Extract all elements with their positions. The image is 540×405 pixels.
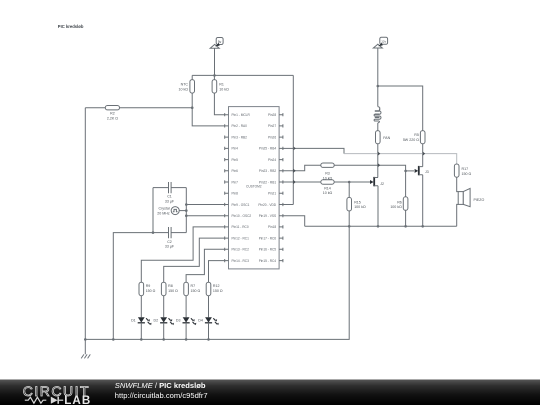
resistor R12 [206, 282, 223, 296]
wire Pin23 RB2 [283, 165, 321, 171]
resistor R14 [321, 180, 334, 195]
wire R6 bottom [405, 210, 407, 226]
svg-text:Pin11 - RC0: Pin11 - RC0 [232, 225, 249, 229]
svg-text:Pin16 - RC5: Pin16 - RC5 [259, 248, 277, 252]
wire R8 to LED [163, 296, 165, 318]
pin 10 left stub [225, 214, 252, 218]
resistor R15 [347, 197, 366, 211]
pin 17 right stub [259, 236, 283, 240]
pin 15 right stub [259, 259, 283, 263]
wire crystal right side [185, 188, 187, 233]
svg-text:Pin17 - RC6: Pin17 - RC6 [259, 236, 277, 240]
svg-text:Pin9 - OSC1: Pin9 - OSC1 [232, 203, 250, 207]
svg-text:R1: R1 [219, 83, 224, 87]
pin 9 left stub [225, 203, 250, 207]
svg-text:Pin3 - RB2: Pin3 - RB2 [232, 135, 248, 139]
wire RC1 to LED column 2 [164, 238, 225, 282]
pin 23 right stub [259, 169, 283, 173]
node LED ground junction [207, 338, 210, 341]
wire crystal bottom right segment [171, 232, 186, 234]
svg-text:Pin26: Pin26 [268, 135, 276, 139]
power flag 5V [210, 38, 223, 49]
svg-text:Pin4: Pin4 [232, 147, 239, 151]
svg-text:5W 220 Ω: 5W 220 Ω [403, 138, 419, 142]
svg-text:D3: D3 [176, 319, 181, 323]
wire R5 to J3 drain [422, 144, 424, 167]
pin 22 right stub [259, 180, 283, 184]
svg-text:Pin15 - RC4: Pin15 - RC4 [259, 259, 277, 263]
wire R9 to LED [140, 296, 142, 318]
wire source rail [305, 225, 457, 227]
svg-text:100 kΩ: 100 kΩ [390, 205, 402, 209]
pin 26 right stub [268, 135, 283, 139]
wire Pin25 RB4 to vertical [283, 147, 293, 149]
speaker PIEZO [458, 188, 484, 206]
svg-text:20 MHz: 20 MHz [157, 211, 170, 215]
pin 11 left stub [225, 225, 249, 229]
pin 1 left stub [225, 113, 251, 117]
svg-text:R9: R9 [146, 284, 151, 288]
wire R6 top [405, 171, 407, 197]
svg-text:Pin1 - MCLR: Pin1 - MCLR [232, 113, 251, 117]
svg-text:Pin23 - RB2: Pin23 - RB2 [259, 169, 276, 173]
svg-text:C2: C2 [167, 240, 172, 244]
power flag 12V [373, 37, 387, 48]
svg-text:CUSTOM2: CUSTOM2 [246, 184, 262, 188]
transistor J2 [370, 177, 384, 186]
pin 6 left stub [225, 169, 238, 173]
wire NTC to Pin2 RA0 [192, 93, 225, 126]
pin 16 right stub [259, 248, 283, 252]
svg-text:10 kΩ: 10 kΩ [323, 191, 333, 195]
svg-text:Pin12 - RC1: Pin12 - RC1 [232, 236, 250, 240]
svg-text:33 µF: 33 µF [165, 199, 175, 203]
svg-text:Pin8: Pin8 [232, 192, 239, 196]
node ground left junction [84, 338, 87, 341]
logo resistor zigzag [25, 397, 47, 403]
svg-text:PIC kredsløb: PIC kredsløb [58, 24, 84, 29]
node LED ground junction [140, 338, 143, 341]
node RB4 junction arrow [293, 146, 296, 150]
svg-text:Crystal: Crystal [159, 207, 170, 211]
svg-text:Pin20 - VDD: Pin20 - VDD [258, 203, 276, 207]
node 5V rail junction [213, 74, 216, 77]
wire RC2 to LED column 3 [186, 249, 225, 282]
svg-text:PIEZO: PIEZO [474, 198, 485, 202]
wire R15 top [348, 182, 350, 197]
wire 12V rail [378, 86, 423, 131]
svg-text:Pin2 - RA0: Pin2 - RA0 [232, 124, 248, 128]
svg-text:D2: D2 [153, 319, 158, 323]
resistor R6 [390, 197, 408, 211]
svg-text:100 kΩ: 100 kΩ [354, 205, 366, 209]
resistor FAN [376, 131, 391, 144]
svg-text:R6: R6 [397, 200, 402, 204]
pin 5 left stub [225, 158, 238, 162]
wire crystal left side [152, 188, 154, 233]
oscillator crystal 20MHz [157, 207, 179, 216]
LED D2 [153, 317, 173, 325]
LED D3 [176, 317, 196, 325]
wire LED to ground rail [185, 323, 187, 340]
pin 20 right stub [258, 203, 283, 207]
wire R17 to piezo [457, 177, 459, 191]
node R15 top junction [348, 181, 351, 184]
wire R3 to J3 gate [334, 165, 405, 171]
svg-text:Pin21: Pin21 [268, 192, 276, 196]
svg-text:2,2K Ω: 2,2K Ω [107, 116, 118, 120]
wire rail to NTC [191, 75, 193, 79]
capacitor C2 [165, 227, 175, 249]
svg-text:LAB: LAB [64, 394, 91, 405]
svg-text:Pin6: Pin6 [232, 169, 239, 173]
svg-text:Pin25 - RB4: Pin25 - RB4 [259, 147, 276, 151]
wire OSC2 [186, 215, 224, 217]
wire R2 to NTC node [120, 107, 193, 109]
node R6 bottom junction [404, 225, 407, 228]
resistor R3 [321, 163, 334, 180]
svg-text:R15: R15 [354, 200, 361, 204]
wire LED to ground rail [163, 323, 165, 340]
node LED ground junction [162, 338, 165, 341]
svg-text:R7: R7 [191, 284, 196, 288]
wire piezo bottom to rail [457, 204, 459, 226]
pin 24 right stub [268, 158, 283, 162]
wire inductor to FAN [377, 123, 379, 131]
svg-text:R5: R5 [414, 133, 419, 137]
svg-text:10 kΩ: 10 kΩ [179, 87, 189, 91]
node R2 NTC junction [191, 106, 194, 109]
transistor J3 [406, 166, 429, 175]
node crystal ground junction [112, 338, 115, 341]
pin 25 right stub [259, 147, 283, 151]
pin 13 left stub [225, 248, 249, 252]
wire R14 to J2 gate [334, 181, 371, 183]
inductor loop bars [375, 111, 380, 117]
node R6 gate junction [404, 170, 407, 173]
wire crystal to right side [179, 210, 186, 212]
svg-text:R8: R8 [168, 284, 173, 288]
node OSC2 junction [185, 214, 188, 217]
svg-text:Pin19 - VSS: Pin19 - VSS [259, 214, 276, 218]
node RB1 junction arrow [293, 180, 296, 184]
svg-text:Pin18: Pin18 [268, 225, 276, 229]
wire left drop top [85, 107, 105, 109]
svg-text:Pin14 - RC3: Pin14 - RC3 [232, 259, 250, 263]
svg-text:Pin10 - OSC2: Pin10 - OSC2 [232, 214, 252, 218]
node FAN rail junction arrow [378, 152, 381, 156]
resistor NTC [179, 80, 195, 94]
ground [81, 354, 90, 358]
svg-text:150 Ω: 150 Ω [191, 289, 201, 293]
resistor R17 [454, 164, 471, 177]
svg-text:R12: R12 [213, 284, 220, 288]
wire crystal bottom left segment [153, 232, 169, 234]
node LED ground junction [185, 338, 188, 341]
svg-text:Pin7: Pin7 [232, 180, 239, 184]
node J3 source junction [421, 225, 424, 228]
resistor R7 [184, 282, 201, 296]
node J2 drain junction arrow [378, 163, 381, 167]
pin 8 left stub [225, 192, 238, 196]
svg-text:J3: J3 [425, 170, 429, 174]
resistor R1 [212, 80, 229, 94]
wire 5V to rail [214, 48, 216, 75]
svg-text:Pin27: Pin27 [268, 124, 276, 128]
svg-text:R17: R17 [462, 167, 469, 171]
pin 4 left stub [225, 147, 238, 151]
wire Pin20 VDD [283, 204, 293, 206]
svg-text:FAN: FAN [383, 136, 390, 140]
svg-text:C1: C1 [167, 195, 172, 199]
wire FAN to J2 drain [377, 144, 379, 178]
pin 21 right stub [268, 192, 283, 196]
node crystal junction [185, 209, 188, 212]
node R5 rail junction arrow [423, 152, 426, 156]
capacitor C1 [165, 182, 175, 203]
wire 12V to inductor [377, 86, 379, 107]
pin 12 left stub [225, 236, 249, 240]
pin 14 left stub [225, 259, 249, 263]
resistor R2 [105, 106, 119, 121]
resistor R5 [403, 131, 425, 144]
svg-text:Pin22 - RB1: Pin22 - RB1 [259, 180, 276, 184]
wire RC3 to LED column 4 [209, 261, 225, 283]
wire ground rail [85, 226, 349, 339]
svg-text:http://circuitlab.com/c95dfr7: http://circuitlab.com/c95dfr7 [115, 391, 208, 400]
svg-text:D4: D4 [198, 319, 203, 323]
LED D1 [131, 317, 151, 325]
logo diode [51, 397, 63, 404]
wire LED to ground rail [208, 323, 210, 340]
svg-text:Pin5: Pin5 [232, 158, 239, 162]
svg-text:R3: R3 [325, 172, 330, 176]
svg-text:Pin28: Pin28 [268, 113, 276, 117]
node RB2 junction arrow [293, 169, 296, 173]
wire Pin19 VSS [283, 216, 305, 227]
svg-text:NTC: NTC [181, 83, 189, 87]
wire 12V down [377, 48, 379, 86]
svg-text:SNWFLME / PIC kredsløb: SNWFLME / PIC kredsløb [115, 381, 206, 390]
wire LED to ground rail [140, 323, 142, 340]
svg-text:R14: R14 [324, 186, 331, 190]
wire R7 to LED [185, 296, 187, 318]
node crystal bottom left junction [152, 231, 155, 234]
inductor coil [374, 107, 381, 123]
node R15 bottom junction [348, 225, 351, 228]
wire Pin22 RB1 [283, 181, 321, 183]
svg-text:150 Ω: 150 Ω [168, 289, 178, 293]
wire J3 source [422, 175, 424, 227]
wire R15 bottom [348, 211, 350, 226]
svg-text:150 Ω: 150 Ω [146, 289, 156, 293]
wire left vertical to ground [84, 108, 86, 355]
pin 7 left stub [225, 180, 238, 184]
wire 5V rail [192, 74, 293, 76]
resistor R8 [161, 282, 178, 296]
wire R12 to LED [208, 296, 210, 318]
pin 27 right stub [268, 124, 283, 128]
svg-text:R2: R2 [110, 112, 115, 116]
wire R1 to Pin1 MCLR [214, 93, 224, 115]
wire RB4 step [293, 148, 344, 153]
wire OSC1 [186, 204, 224, 206]
wire crystal block to ground [113, 233, 153, 340]
node J2 source junction [377, 225, 380, 228]
svg-text:33 µF: 33 µF [165, 245, 175, 249]
pin 2 left stub [225, 124, 247, 128]
svg-text:10 kΩ: 10 kΩ [219, 87, 229, 91]
svg-text:D1: D1 [131, 319, 136, 323]
op-amp U1 CUSTOM2 chip body [229, 107, 280, 269]
pin 18 right stub [268, 225, 283, 229]
wire rail to R17 (light) [344, 154, 457, 164]
wire rail to R1 [213, 75, 215, 79]
svg-text:12v: 12v [381, 40, 386, 44]
svg-text:J2: J2 [380, 182, 384, 186]
pin 3 left stub [225, 135, 247, 139]
wire VDD vertical [292, 75, 294, 204]
node 12V junction [377, 85, 380, 88]
svg-text:150 Ω: 150 Ω [462, 172, 472, 176]
node OSC1 junction [185, 203, 188, 206]
svg-text:Pin24: Pin24 [268, 158, 276, 162]
LED D4 [198, 317, 218, 325]
wire crystal top left [153, 187, 169, 189]
pin 19 right stub [259, 214, 283, 218]
wire J2 source [377, 186, 379, 227]
wire RC0 to LED column 1 [141, 227, 224, 282]
svg-text:150 Ω: 150 Ω [213, 289, 223, 293]
resistor R9 [139, 282, 156, 296]
wire crystal top right [171, 187, 186, 189]
svg-text:Pin13 - RC2: Pin13 - RC2 [232, 248, 250, 252]
pin 28 right stub [268, 113, 283, 117]
